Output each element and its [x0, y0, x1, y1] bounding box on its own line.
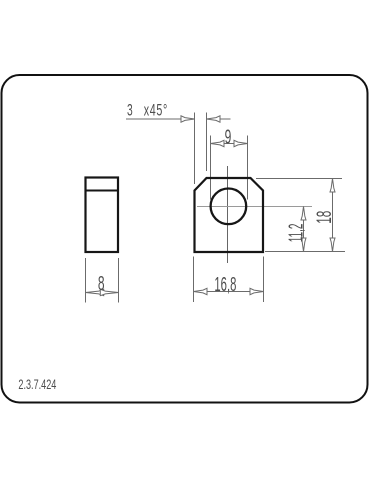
dimension line 11.2 vertical — [303, 207, 305, 252]
hole circle (9mm diameter) — [211, 189, 247, 225]
arrowhead 9 pointing right — [234, 140, 248, 146]
arrowhead 8 pointing right — [100, 289, 118, 295]
extension line 16.8 left — [193, 257, 195, 303]
svg-text:x45°: x45° — [144, 100, 168, 119]
extension line 8 right — [118, 258, 120, 303]
dimension line 9 — [211, 143, 248, 145]
dimension line 18 vertical — [332, 179, 334, 252]
arrowhead 8 pointing left — [86, 289, 104, 295]
dimension line 16.8 — [194, 291, 264, 293]
svg-text:9: 9 — [225, 127, 232, 149]
side view outline (8mm wide rectangle) — [86, 178, 119, 253]
dimension line 3x45 right tail — [207, 118, 231, 120]
svg-text:16,8: 16,8 — [214, 274, 236, 296]
svg-text:2.3.7.424: 2.3.7.424 — [18, 376, 56, 393]
arrowhead 16.8 pointing right — [250, 288, 264, 294]
extension line top for 18 — [256, 178, 342, 180]
front view outline with chamfered top corners — [195, 178, 264, 252]
arrowhead 3x45 pointing right — [181, 116, 195, 122]
side view chamfer edge line — [86, 190, 119, 192]
extension line hole diameter left — [210, 136, 212, 200]
extension line hole diameter right — [247, 136, 249, 200]
arrowhead 18 pointing up — [330, 179, 335, 193]
border frame of drawing card — [2, 75, 368, 403]
dimension line 3x45 left with leader — [126, 118, 195, 120]
extension line chamfer left — [194, 113, 196, 185]
extension line bottom right for 18 and 11.2 — [265, 251, 345, 253]
arrowhead 18 pointing down — [330, 238, 335, 252]
svg-text:3: 3 — [127, 101, 133, 119]
svg-text:8: 8 — [98, 273, 105, 295]
extension line chamfer right — [206, 113, 208, 172]
arrowhead 16.8 pointing left — [194, 288, 208, 294]
svg-text:11,2: 11,2 — [286, 224, 308, 243]
extension line 16.8 right — [263, 257, 265, 303]
extension line 8 left — [85, 258, 87, 303]
svg-text:18: 18 — [312, 211, 335, 224]
dimension line 8 — [86, 292, 119, 294]
horizontal centerline of hole — [197, 206, 312, 208]
arrowhead 11.2 pointing up — [301, 207, 306, 221]
arrowhead 3x45 pointing left — [207, 116, 221, 122]
arrowhead 11.2 pointing down — [301, 238, 306, 252]
vertical centerline of hole — [227, 166, 229, 263]
arrowhead 9 pointing left — [211, 140, 225, 146]
